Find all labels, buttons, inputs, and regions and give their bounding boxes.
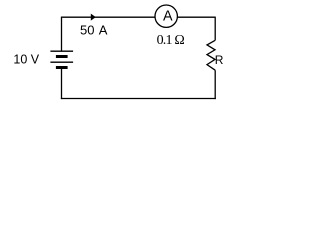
ammeter A1 circle [155,5,177,27]
svg-text:A: A [163,9,173,25]
battery V1 plate short thick upper [56,55,68,58]
wire top horizontal left segment [61,16,155,18]
battery V1 plate long lower [50,61,73,63]
battery V1 plate short thick lower [56,66,68,69]
svg-text:R: R [215,53,224,67]
battery V1 plate long top [50,50,73,52]
wire top-left vertical [61,17,63,51]
wire bottom-left vertical [61,69,63,99]
resistor R zigzag [207,40,215,70]
svg-text:A: A [99,22,108,37]
wire right vertical upper [214,17,216,41]
current direction arrowhead [91,14,96,21]
wire bottom horizontal [61,98,216,100]
svg-text:50: 50 [80,22,94,37]
svg-text:0.1 Ω: 0.1 Ω [157,33,185,48]
wire right vertical lower [214,70,216,99]
wire top horizontal right segment [177,16,215,18]
svg-text:10 V: 10 V [13,52,39,66]
